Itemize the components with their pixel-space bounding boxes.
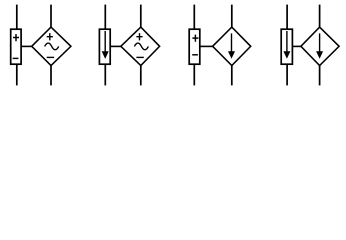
wire F2 top lead — [319, 5, 321, 28]
dependent current source F2 — [301, 27, 339, 65]
dependent voltage source E2 — [121, 27, 160, 65]
wire I2 to F2 — [292, 45, 301, 47]
wire V1 top lead — [16, 5, 18, 30]
wire I1 to E2 — [110, 45, 121, 47]
wire V2 bottom lead — [193, 64, 195, 85]
dependent current source F1 — [213, 27, 251, 65]
wire V2 top lead — [193, 5, 195, 30]
current source I1 — [99, 29, 110, 64]
dependent voltage source E1 — [32, 27, 71, 65]
wire V2 to F1 — [200, 45, 213, 47]
wire I2 top lead — [286, 5, 288, 30]
wire E2 top lead — [140, 5, 142, 28]
wire F1 top lead — [231, 5, 233, 28]
wire V1 bottom lead — [16, 64, 18, 85]
voltage source V2 — [189, 29, 200, 64]
wire I1 bottom lead — [104, 64, 106, 85]
voltage source V1 — [11, 29, 21, 64]
current source I2 — [281, 29, 292, 64]
wire F1 bottom lead — [231, 66, 233, 86]
wire E1 bottom lead — [50, 66, 52, 86]
wire E1 top lead — [50, 5, 52, 28]
wire I2 bottom lead — [286, 64, 288, 85]
wire E2 bottom lead — [140, 66, 142, 86]
wire I1 top lead — [104, 5, 106, 30]
wire F2 bottom lead — [319, 66, 321, 86]
wire V1 to E1 — [21, 45, 32, 47]
